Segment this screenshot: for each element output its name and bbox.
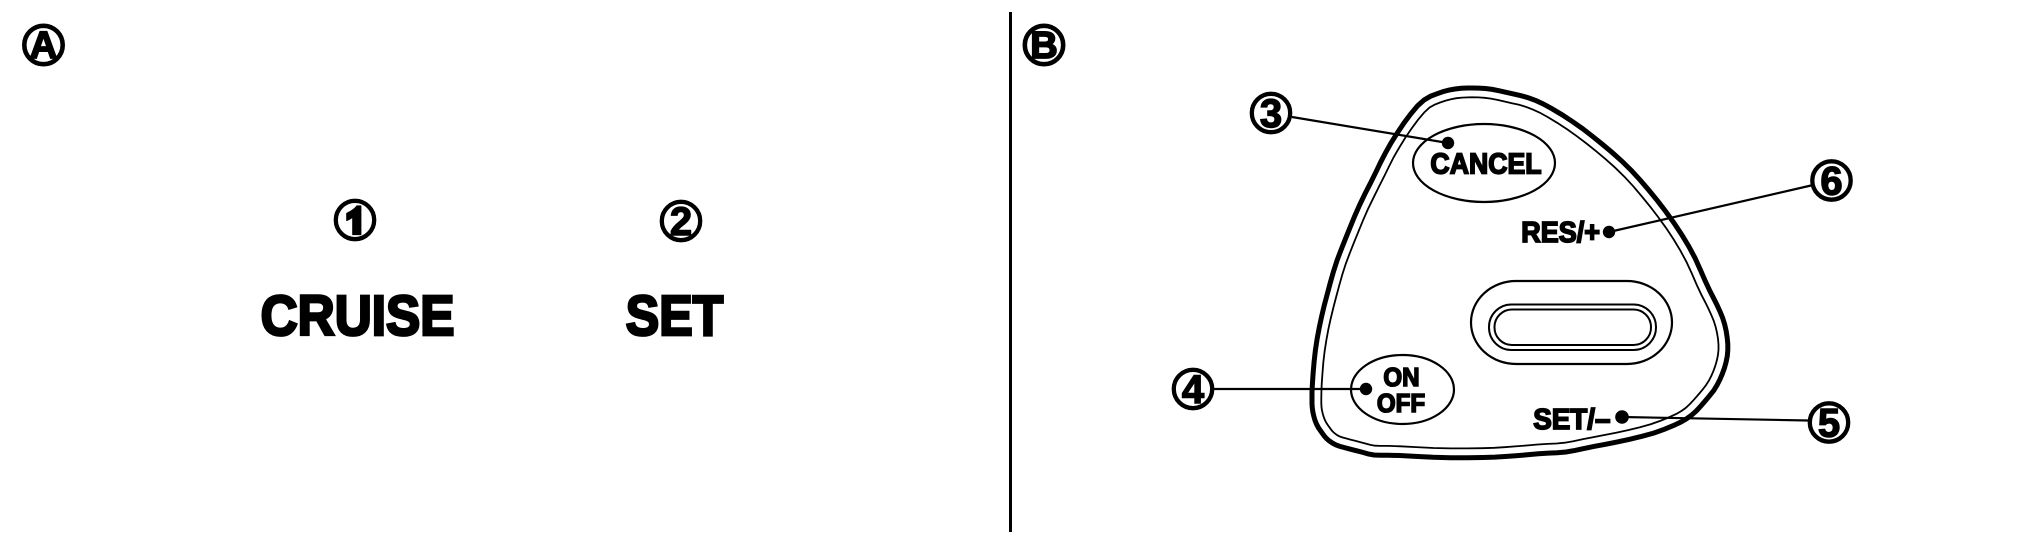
callout A circle [24,26,62,64]
leader dot at CANCEL [1442,137,1454,149]
svg-text:CRUISE: CRUISE [261,285,455,348]
panel divider line [1009,12,1012,532]
svg-text:OFF: OFF [1377,389,1425,418]
leader line 4 to ON/OFF [1214,388,1366,390]
svg-text:RES/+: RES/+ [1521,216,1600,248]
callout 1 digit [347,206,361,235]
leader dot at ON/OFF [1360,383,1372,395]
svg-text:B: B [1030,25,1057,67]
svg-text:3: 3 [1260,92,1282,136]
svg-text:2: 2 [670,200,692,244]
center rocker outer ring [1471,281,1672,364]
callout 3 circle [1252,94,1290,132]
switch pad outer outline [1312,88,1728,458]
callout 4 circle [1174,370,1212,408]
ON/OFF button ellipse [1351,355,1454,424]
callout 1 circle [336,201,374,239]
center rocker middle ring [1489,305,1656,351]
leader dot at RES/+ [1603,226,1615,238]
svg-text:ON: ON [1383,363,1419,392]
leader line 3 to CANCEL [1292,117,1448,143]
callout 6 circle [1812,161,1850,199]
leader line 5 to SET/- [1622,417,1808,421]
callout B circle [1025,26,1063,64]
svg-text:SET: SET [626,284,724,348]
CANCEL button ellipse [1413,124,1555,202]
center rocker inner ring [1495,310,1652,346]
svg-text:5: 5 [1818,402,1840,446]
leader line 6 to RES/+ [1609,186,1811,233]
switch pad inner outline [1321,97,1718,448]
svg-text:A: A [30,25,57,67]
svg-text:4: 4 [1182,368,1205,412]
callout 2 circle [662,202,700,240]
svg-text:SET/–: SET/– [1533,403,1610,436]
svg-text:CANCEL: CANCEL [1430,147,1541,179]
leader dot at SET/- [1615,410,1629,424]
callout 5 circle [1810,403,1848,441]
svg-text:6: 6 [1820,160,1842,204]
